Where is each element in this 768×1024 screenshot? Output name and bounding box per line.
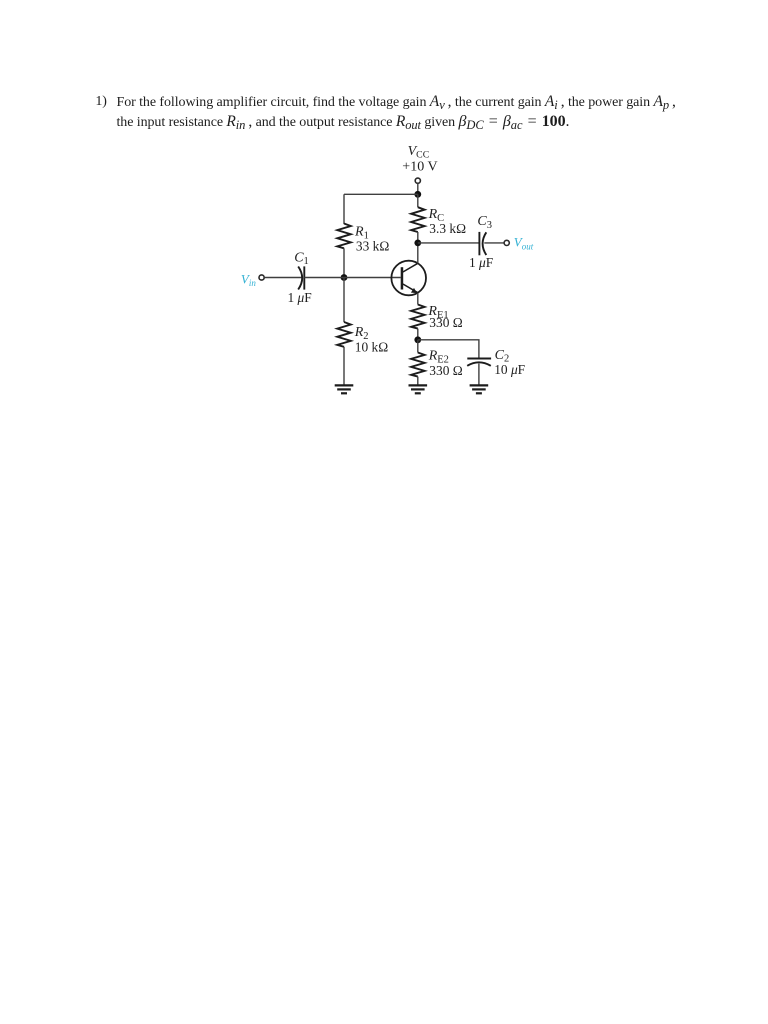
svg-text:330 Ω: 330 Ω [429,315,462,330]
svg-text:VCC: VCC [408,144,430,160]
wire emitter node to C2 [418,340,479,358]
capacitor C1 [288,250,312,305]
ground under RE2 [409,385,428,393]
svg-text:10 μF: 10 μF [494,362,525,377]
svg-text:330 Ω: 330 Ω [429,363,462,378]
svg-text:3.3 kΩ: 3.3 kΩ [429,221,466,236]
wire C3 to output terminal [484,242,504,244]
svg-text:C1: C1 [294,250,309,267]
ground under R2 [335,385,354,393]
svg-text:+10 V: +10 V [402,160,437,175]
wire top horizontal [344,193,418,195]
node collector [414,240,421,247]
wire C1 to base [304,277,400,279]
node base junction [341,274,348,281]
wire left vertical upper [343,194,345,224]
problem statement [95,92,768,133]
wire input terminal to C1 [264,277,301,279]
transistor Q1 [391,261,426,296]
svg-text:1 μF: 1 μF [288,290,312,305]
wire R1 bottom to base node [343,248,345,277]
resistor RE2 [411,349,463,378]
wire collector node to C3 [418,242,480,244]
capacitor C2 [467,348,525,377]
wire RE2 to ground [417,377,419,385]
node emitter junction [414,336,421,343]
svg-text:Vin: Vin [241,271,256,288]
wire base node to R2 [343,278,345,323]
resistor RC [411,207,466,236]
ground under C2 [470,385,489,393]
node VCC junction [414,191,421,198]
VCC label [402,144,437,174]
wire emitter vertical [417,293,419,305]
wire RC bottom to collector node [417,232,419,263]
svg-text:Vout: Vout [514,234,534,251]
svg-text:1 μF: 1 μF [469,255,493,270]
input terminal [259,275,264,280]
wire R2 to ground [343,347,345,385]
capacitor C3 [469,214,493,270]
resistor R2 [337,322,388,355]
resistor RE1 [411,304,463,330]
wire VCC stub [417,183,419,194]
wire VCC node to RC top [417,194,419,207]
resistor R1 [337,224,389,254]
wire C2 to ground [478,364,480,385]
wire emitter node to RE2 [417,340,419,353]
svg-text:10 kΩ: 10 kΩ [355,340,388,355]
svg-text:33 kΩ: 33 kΩ [356,239,389,254]
wire RE1 to emitter node [417,329,419,340]
svg-text:C3: C3 [477,214,492,231]
VCC terminal [415,178,420,183]
output terminal [504,240,509,245]
